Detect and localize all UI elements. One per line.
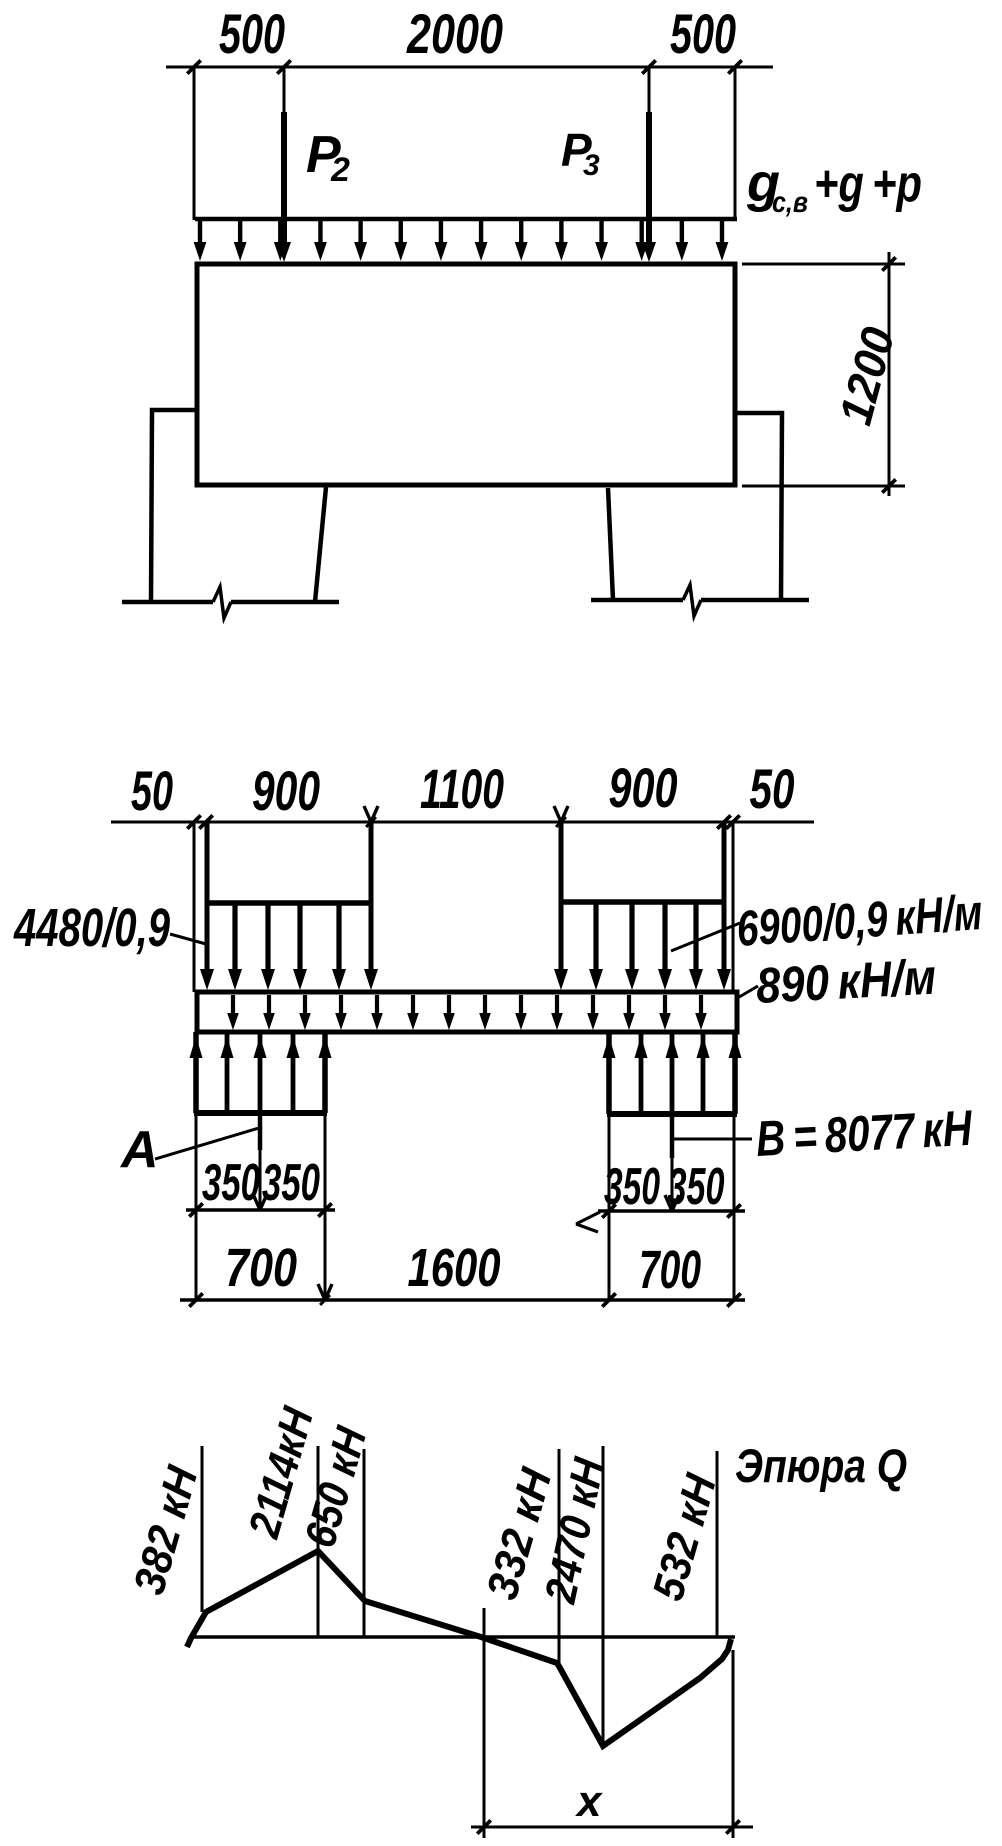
svg-text:350: 350 [202,1154,260,1212]
svg-text:4480/0,9: 4480/0,9 [13,898,170,958]
svg-text:+g +p: +g +p [814,155,922,213]
svg-text:1200: 1200 [829,321,905,429]
svg-text:382 кН: 382 кН [125,1460,208,1600]
svg-text:350: 350 [262,1154,320,1212]
svg-text:x: x [575,1777,603,1826]
svg-text:A: A [119,1121,159,1179]
svg-text:890 кН/м: 890 кН/м [755,949,938,1014]
svg-text:900: 900 [609,756,678,819]
svg-text:532 кН: 532 кН [644,1468,727,1606]
svg-text:700: 700 [225,1238,297,1298]
svg-text:350: 350 [604,1158,660,1216]
svg-text:3: 3 [583,149,600,182]
svg-text:900: 900 [252,759,320,822]
svg-text:Эпюра Q: Эпюра Q [735,1439,907,1492]
svg-text:1100: 1100 [420,757,504,820]
svg-text:500: 500 [219,2,285,65]
svg-text:1600: 1600 [408,1238,501,1298]
svg-text:2000: 2000 [406,2,503,65]
svg-text:50: 50 [750,757,795,820]
svg-text:700: 700 [639,1240,701,1300]
svg-text:2: 2 [330,151,350,189]
svg-text:350: 350 [668,1158,725,1216]
svg-text:500: 500 [670,2,736,65]
svg-text:6900/0,9 кН/м: 6900/0,9 кН/м [735,884,984,957]
svg-text:50: 50 [131,759,173,822]
svg-text:B = 8077 кН: B = 8077 кН [755,1100,974,1167]
svg-text:с,в: с,в [772,186,808,219]
